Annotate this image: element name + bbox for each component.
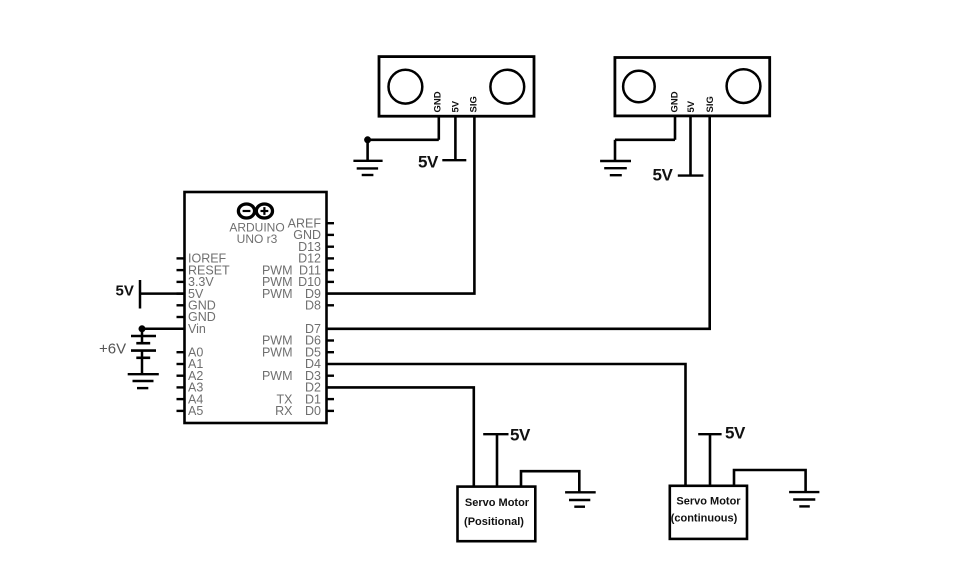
pin RESET stub (left)	[177, 269, 185, 271]
pin label D13	[298, 240, 321, 254]
svg-text:GND: GND	[433, 91, 444, 112]
pin label GND (U3, rotated)	[670, 91, 681, 112]
svg-text:A5: A5	[188, 404, 203, 418]
svg-text:PWM: PWM	[262, 345, 293, 359]
pin label D1	[305, 392, 321, 406]
svg-text:5V: 5V	[418, 153, 439, 172]
pin D3 stub (right)	[327, 375, 335, 377]
svg-text:UNO r3: UNO r3	[237, 232, 278, 246]
svg-text:(continuous): (continuous)	[671, 513, 738, 525]
pin D0 stub (right)	[327, 410, 335, 412]
pin A3 stub (left)	[177, 386, 185, 388]
pin label D11	[299, 263, 321, 277]
wire M2 5V supply	[709, 434, 712, 486]
wire M1 5V terminal bar	[483, 433, 508, 435]
sensor module U3 (right IR sensor) body	[615, 58, 770, 116]
wire M1 5V supply	[496, 434, 499, 486]
wire D2 to servo M1	[327, 387, 474, 486]
label PWM for D3	[262, 369, 293, 383]
pin A2 stub (left)	[177, 375, 185, 377]
pin label D5	[305, 345, 321, 359]
pin D13 stub (right)	[327, 245, 335, 247]
wire U3 GND down	[674, 116, 677, 140]
svg-text:RX: RX	[275, 404, 293, 418]
pin A5 stub (left)	[177, 410, 185, 412]
svg-text:5V: 5V	[450, 100, 461, 112]
svg-text:5V: 5V	[686, 100, 697, 112]
pin label GND	[188, 299, 216, 313]
ground (sensor U3)	[600, 161, 631, 175]
svg-text:5V: 5V	[510, 426, 531, 445]
wire U3 5V down	[689, 116, 692, 176]
wire U2 GND down	[437, 116, 440, 139]
pin label D2	[305, 381, 321, 395]
pin 3.3V stub (left)	[177, 281, 185, 283]
pin label SIG (U2, rotated)	[468, 96, 479, 112]
pin GND stub (right)	[327, 234, 335, 236]
pin label D0	[305, 404, 321, 418]
svg-text:PWM: PWM	[262, 287, 293, 301]
pin AREF stub (right)	[327, 222, 335, 224]
wire M1 to ground	[521, 471, 579, 492]
svg-text:D0: D0	[305, 404, 321, 418]
svg-text:GND: GND	[670, 91, 681, 112]
pin D10 stub (right)	[327, 281, 335, 283]
pin label SIG (U3, rotated)	[705, 96, 716, 112]
label 5V (sensor U3)	[653, 166, 674, 185]
servo motor M2 (continuous) body	[670, 486, 747, 539]
label PWM for D10	[262, 275, 293, 289]
pin label A3	[188, 381, 203, 395]
pin Vin stub (left)	[177, 328, 185, 330]
wire M2 5V terminal bar	[698, 433, 721, 435]
IC U1 Arduino UNO r3 body	[185, 192, 327, 423]
label 5V (sensor U2)	[418, 153, 439, 172]
pin label D3	[305, 369, 321, 383]
pin 5V stub (left)	[177, 292, 185, 294]
label 5V (left rail)	[116, 283, 134, 300]
svg-text:5V: 5V	[725, 424, 746, 443]
pin label 3.3V	[188, 275, 214, 289]
servo motor M1 (positional) body	[458, 487, 536, 542]
pin label A1	[188, 357, 203, 371]
label Servo Motor (M1)	[465, 497, 530, 509]
svg-text:SIG: SIG	[705, 96, 716, 112]
junction node U2 gnd	[364, 136, 371, 143]
svg-text:Servo Motor: Servo Motor	[465, 497, 530, 509]
wire Vin to battery	[142, 328, 185, 331]
pin label 5V (U2, rotated)	[450, 100, 461, 112]
ground (battery)	[128, 374, 159, 388]
pin label D7	[305, 322, 321, 336]
label PWM for D5	[262, 345, 293, 359]
pin label GND	[293, 228, 321, 242]
wire U2 SIG to D9	[327, 116, 475, 293]
label TX for D1	[277, 392, 294, 406]
ground (servo M1)	[565, 492, 596, 506]
label ARDUINO UNO r3	[229, 221, 284, 247]
label PWM for D6	[262, 334, 293, 348]
pin label D8	[305, 299, 321, 313]
pin A4 stub (left)	[177, 398, 185, 400]
pin label IOREF	[188, 252, 227, 266]
pin label 5V (U3, rotated)	[686, 100, 697, 112]
pin label D4	[305, 357, 321, 371]
svg-text:D8: D8	[305, 299, 321, 313]
pin label AREF	[288, 216, 322, 230]
pin D11 stub (right)	[327, 269, 335, 271]
pin label GND	[188, 310, 216, 324]
junction node battery/Vin	[139, 325, 146, 332]
pin A1 stub (left)	[177, 363, 185, 365]
pin GND stub (left)	[177, 316, 185, 318]
svg-text:Servo Motor: Servo Motor	[676, 496, 741, 508]
label (continuous)	[671, 513, 738, 525]
sensor U3 right eye	[727, 69, 761, 103]
wire M2 to ground	[734, 470, 806, 492]
label 5V (servo M1)	[510, 426, 531, 445]
pin GND stub (left)	[177, 304, 185, 306]
wire U3 5V terminal bar	[678, 174, 704, 176]
wire U3 SIG to D7	[327, 116, 710, 329]
label +6V	[99, 341, 126, 358]
pin label A5	[188, 404, 203, 418]
wire D4 to servo M2	[327, 364, 686, 486]
battery B1	[131, 329, 156, 374]
wire U2 5V down	[454, 116, 457, 160]
pin label A2	[188, 369, 203, 383]
pin label D9	[305, 287, 321, 301]
wire U2 gnd drop	[366, 140, 369, 161]
pin label A0	[188, 345, 203, 359]
wire U2 GND horizontal	[368, 139, 439, 142]
pin D6 stub (right)	[327, 339, 335, 341]
pin D1 stub (right)	[327, 398, 335, 400]
sensor module U2 (left IR sensor) body	[379, 57, 534, 117]
svg-text:Vin: Vin	[188, 322, 206, 336]
svg-text:5V: 5V	[116, 283, 134, 300]
pin label A4	[188, 392, 203, 406]
wire U2 5V terminal bar	[442, 159, 466, 161]
sensor U2 right eye	[490, 70, 524, 104]
svg-text:(Positional): (Positional)	[464, 516, 524, 528]
ground (sensor U2)	[353, 161, 382, 175]
svg-text:PWM: PWM	[262, 369, 293, 383]
wire U3 gnd drop	[614, 140, 617, 161]
svg-text:+6V: +6V	[99, 341, 126, 358]
ground (servo M2)	[789, 492, 819, 506]
sensor U3 left eye	[623, 71, 655, 103]
pin label D10	[298, 275, 321, 289]
pin label D6	[305, 334, 321, 348]
power rail 5V symbol	[139, 280, 142, 309]
pin label Vin	[188, 322, 206, 336]
svg-text:SIG: SIG	[468, 96, 479, 112]
wire 5V rail to pin 5V	[140, 292, 185, 295]
label RX for D0	[275, 404, 293, 418]
label (Positional)	[464, 516, 524, 528]
label 5V (servo M2)	[725, 424, 746, 443]
pin IOREF stub (left)	[177, 257, 185, 259]
pin label RESET	[188, 263, 230, 277]
pin A0 stub (left)	[177, 351, 185, 353]
pin D12 stub (right)	[327, 257, 335, 259]
pin label GND (U2, rotated)	[433, 91, 444, 112]
pin D5 stub (right)	[327, 351, 335, 353]
Arduino logo	[238, 204, 272, 218]
wire U3 GND horizontal	[615, 139, 675, 142]
label PWM for D9	[262, 287, 293, 301]
sensor U2 left eye	[389, 70, 423, 104]
svg-text:5V: 5V	[653, 166, 674, 185]
label Servo Motor (M2)	[676, 496, 741, 508]
label PWM for D11	[262, 263, 293, 277]
pin label D12	[298, 252, 321, 266]
pin label 5V	[188, 287, 204, 301]
pin D8 stub (right)	[327, 304, 335, 306]
